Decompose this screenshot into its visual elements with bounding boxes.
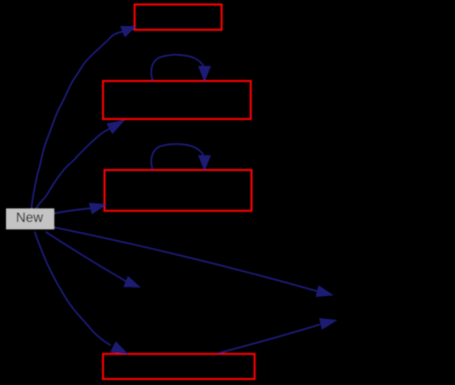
self-loop edge on N3 [151, 144, 210, 170]
edge New to N1 [32, 32, 123, 209]
arrowhead New to hidden middle node [124, 277, 140, 287]
edge New to N3 [55, 208, 92, 213]
arrowhead New to N1 [121, 27, 136, 37]
edge New to hidden middle node [46, 232, 127, 282]
arrowhead New to N3 [89, 203, 105, 213]
edge New to N2 [36, 129, 110, 209]
edge N4 to hidden lower right node [218, 325, 320, 354]
svg-text:New: New [16, 210, 43, 225]
edge New to N4 [35, 232, 111, 346]
node New (grey filled) [6, 208, 54, 229]
self-loop edge on N2 [151, 55, 210, 81]
arrowhead New to hidden right node [316, 286, 332, 297]
edge New to hidden right node [55, 227, 318, 291]
node N2 (red box, recursive) [103, 81, 251, 119]
node N1 (top, red box) [135, 5, 222, 30]
arrowhead New to N4 [111, 342, 127, 354]
node N4 (bottom red box) [103, 354, 255, 379]
node N3 (red box, recursive) [105, 170, 252, 211]
arrowhead New to N2 [107, 121, 124, 134]
arrowhead N4 to hidden lower right node [320, 319, 336, 330]
